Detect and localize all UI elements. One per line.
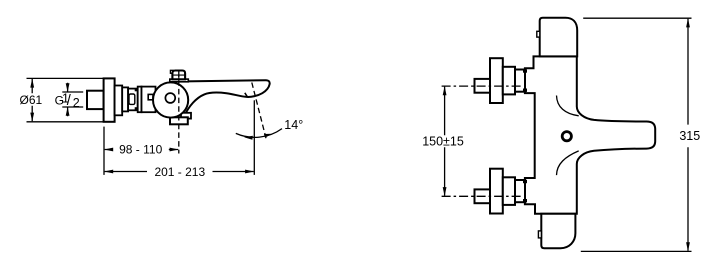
svg-text:14°: 14°: [284, 118, 303, 132]
arrow 201-213 left: [104, 170, 113, 174]
wall flange (escutcheon): [104, 78, 115, 121]
arrow 201-213 right: [245, 170, 254, 174]
svg-text:98 - 110: 98 - 110: [119, 143, 162, 157]
outlet ring: [562, 132, 571, 141]
dim Ø61 extension line bottom: [27, 121, 104, 123]
arc arrow left: [244, 136, 253, 140]
dim 150 line: [444, 87, 446, 196]
315 extension line top: [583, 17, 691, 19]
handle cap top-left notch: [170, 70, 173, 73]
upper connector: pipe: [475, 79, 491, 93]
spout flare curve top: [557, 96, 579, 116]
spout body (side profile): [184, 80, 269, 116]
valve neck E: [142, 87, 156, 113]
check valve detail in step C: [129, 94, 135, 104]
main body with spout: [525, 56, 655, 213]
lower connector: step3: [503, 177, 515, 205]
bottom handle cap: [541, 214, 575, 249]
lower connector: flange: [490, 169, 503, 214]
body step A: [115, 86, 123, 116]
lower connector centerline: [442, 195, 523, 197]
arrow G1/2 up (to bottom line): [66, 107, 70, 116]
dim Ø61 extension line top: [27, 77, 104, 79]
top cap notch: [537, 31, 540, 37]
body dashed centerline: [178, 72, 180, 154]
upper connector: step4: [515, 70, 525, 92]
diverter knob below body: [170, 117, 188, 124]
spout angle dashed line (14 deg): [252, 83, 266, 139]
svg-text:150±15: 150±15: [422, 135, 464, 149]
dim 201-213 line: [105, 171, 254, 173]
arrow 150 up: [443, 86, 447, 95]
button on left of valve body: [148, 94, 153, 99]
valve center small circle: [165, 93, 175, 103]
body step C: [128, 89, 138, 111]
upper connector centerline: [442, 85, 523, 87]
lower connector clips: [523, 180, 527, 183]
arc arrow right: [264, 134, 273, 138]
315 extension line bottom: [581, 250, 692, 252]
arrow G1/2 down (to top line): [66, 83, 70, 92]
angle arc 14 deg: [236, 129, 282, 138]
spout outlet tick: [245, 93, 248, 97]
arrow Ø61 up: [30, 78, 34, 87]
bottom cap notch: [538, 231, 541, 238]
svg-text:201 - 213: 201 - 213: [154, 165, 205, 179]
handle collar: [170, 79, 189, 82]
dim G1/2 arrow shafts (outside): [67, 83, 69, 116]
body step D: [138, 87, 142, 113]
arrow 315 up: [686, 18, 690, 27]
arrow 315 down: [686, 242, 690, 251]
upper connector clips: [523, 69, 527, 72]
valve body circle: [153, 82, 188, 117]
step under spout at body: [181, 113, 191, 119]
dim Ø61 arrow shafts: [31, 79, 33, 121]
spout flare curve bottom: [557, 151, 579, 175]
upper connector: step3: [503, 67, 515, 95]
right extension line (spout outlet): [253, 100, 255, 175]
body step B: [122, 87, 128, 111]
arrow 98-110 right: [170, 148, 179, 152]
dim 315 line: [687, 19, 689, 251]
upper connector: flange: [490, 58, 503, 103]
handle cap: [172, 71, 185, 80]
lower connector: pipe: [475, 189, 491, 203]
top handle cap: [540, 18, 578, 57]
G1/2 inlet pipe: [87, 91, 104, 109]
lower connector: step4: [515, 180, 525, 202]
arrow 98-110 left: [104, 148, 113, 152]
arrow 150 down: [443, 187, 447, 196]
dim G1/2 extension lines: [62, 92, 83, 107]
clip marks on step C: [135, 88, 139, 91]
svg-text:Ø61: Ø61: [20, 93, 43, 107]
left extension line (wall face): [103, 127, 105, 175]
svg-text:2: 2: [73, 96, 80, 110]
svg-text:315: 315: [679, 129, 700, 143]
arrow Ø61 down: [30, 113, 34, 122]
dim 98-110 line: [105, 149, 179, 151]
arrowheads: [30, 78, 272, 173]
handle cap inner lines: [173, 75, 184, 80]
